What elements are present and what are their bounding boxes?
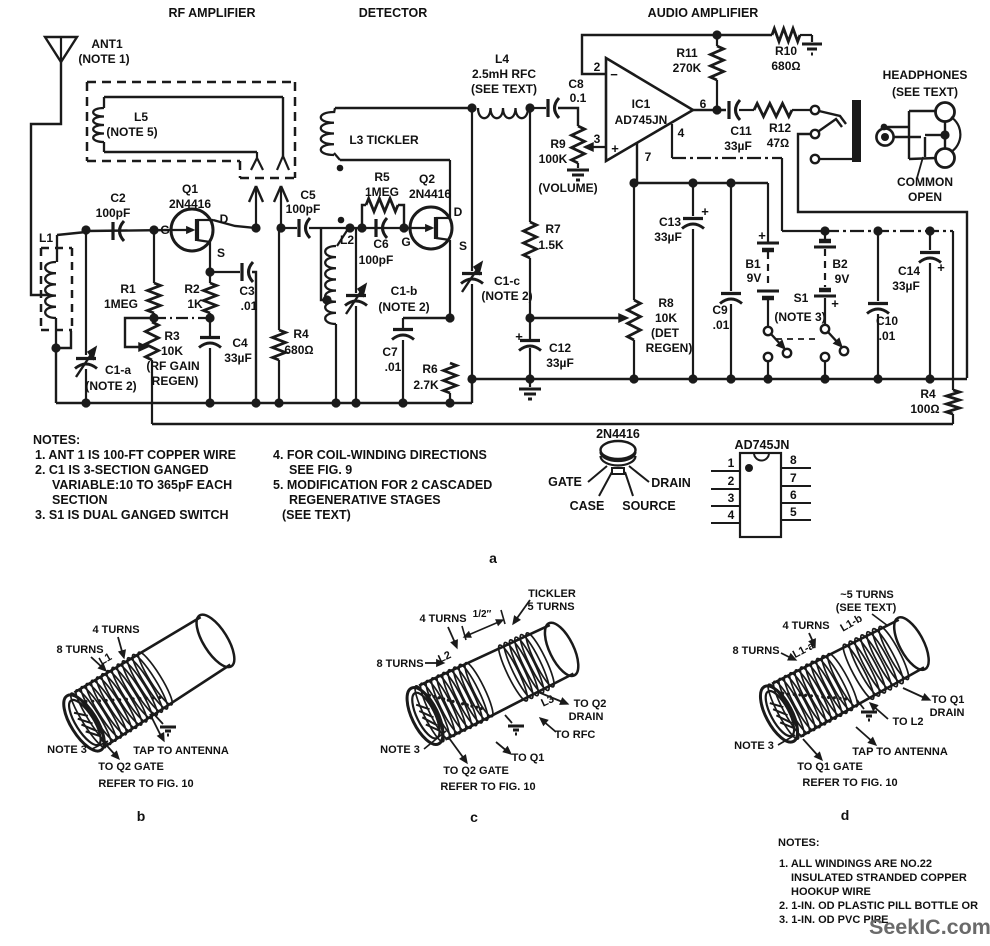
svg-text:TO Q2: TO Q2 bbox=[574, 698, 607, 710]
leader 4 TURNS d bbox=[809, 633, 815, 647]
node C1-b bottom bbox=[351, 398, 360, 407]
leader 5 TURNS d bbox=[872, 614, 888, 626]
svg-text:C7: C7 bbox=[382, 345, 398, 359]
label C6 100pF bbox=[359, 237, 394, 267]
node C1-c bottom bbox=[467, 374, 476, 383]
leader TAP b bbox=[150, 714, 164, 741]
svg-text:4 TURNS: 4 TURNS bbox=[92, 624, 139, 636]
label C4 33uF bbox=[224, 336, 252, 365]
inductor L1 bbox=[45, 235, 57, 344]
svg-text:~5 TURNS: ~5 TURNS bbox=[840, 589, 894, 601]
node C14 top bbox=[925, 226, 934, 235]
svg-text:REFER TO FIG. 10: REFER TO FIG. 10 bbox=[440, 781, 535, 793]
notes block bottom right bbox=[778, 837, 978, 926]
svg-text:C8: C8 bbox=[568, 77, 584, 91]
svg-text:C6: C6 bbox=[373, 237, 389, 251]
potentiometer R8 bbox=[628, 183, 641, 379]
leader TO Q2 DRAIN c bbox=[538, 692, 568, 704]
svg-text:(DET: (DET bbox=[651, 326, 680, 340]
battery B2 bbox=[814, 231, 839, 325]
svg-text:+: + bbox=[937, 260, 945, 275]
inductor L2 bbox=[325, 229, 348, 403]
svg-text:C3: C3 bbox=[239, 284, 255, 298]
svg-text:L2: L2 bbox=[340, 233, 354, 247]
svg-text:G: G bbox=[401, 235, 410, 249]
leader 4 TURNS b bbox=[118, 637, 125, 658]
svg-text:NOTE 3: NOTE 3 bbox=[734, 740, 774, 752]
wire L5 loop bottom with fork bbox=[104, 152, 263, 170]
leader TO Q1 DRAIN d bbox=[903, 688, 930, 700]
svg-text:INSULATED STRANDED COPPER: INSULATED STRANDED COPPER bbox=[791, 872, 967, 884]
svg-text:1K: 1K bbox=[187, 297, 203, 311]
svg-text:5. MODIFICATION FOR 2 CASCADED: 5. MODIFICATION FOR 2 CASCADED bbox=[273, 478, 492, 492]
svg-text:2N4416: 2N4416 bbox=[169, 197, 211, 211]
svg-text:C2: C2 bbox=[110, 191, 126, 205]
node R8 top bbox=[629, 178, 638, 187]
svg-text:1. ALL WINDINGS ARE NO.22: 1. ALL WINDINGS ARE NO.22 bbox=[779, 858, 932, 870]
headphone speaker bottom bbox=[936, 149, 955, 168]
svg-text:c: c bbox=[470, 809, 478, 825]
label L4 2.5mH RFC (SEE TEXT) bbox=[471, 52, 537, 96]
svg-text:33µF: 33µF bbox=[654, 230, 682, 244]
svg-text:(RF GAIN: (RF GAIN bbox=[146, 359, 199, 373]
capacitor C11 bbox=[729, 100, 754, 120]
node C9 bottom bbox=[726, 374, 735, 383]
svg-text:CASE: CASE bbox=[570, 499, 605, 513]
node Q2 gate bbox=[399, 223, 408, 232]
node R11 top bbox=[712, 30, 721, 39]
svg-text:7: 7 bbox=[645, 150, 652, 164]
svg-text:5: 5 bbox=[790, 505, 797, 519]
svg-text:ANT1: ANT1 bbox=[91, 37, 123, 51]
svg-text:AD745JN: AD745JN bbox=[735, 438, 790, 452]
svg-text:+: + bbox=[831, 296, 839, 311]
jack ring contact bbox=[811, 119, 842, 138]
leader 4 TURNS c bbox=[448, 627, 457, 648]
capacitor C9 bbox=[720, 183, 742, 379]
svg-text:NOTE 3: NOTE 3 bbox=[380, 744, 420, 756]
svg-text:+: + bbox=[515, 329, 523, 344]
svg-text:(NOTE 5): (NOTE 5) bbox=[106, 125, 157, 139]
svg-text:R3: R3 bbox=[164, 329, 180, 343]
inductor L4 RFC bbox=[478, 108, 528, 118]
resistor R4 100 bbox=[947, 390, 960, 424]
variable capacitor C1-b bbox=[345, 228, 367, 403]
node C1-a top bbox=[81, 225, 90, 234]
capacitor C14 bbox=[919, 231, 945, 379]
svg-text:−: − bbox=[610, 67, 618, 82]
svg-text:R6: R6 bbox=[422, 362, 438, 376]
label HEADPHONES (SEE TEXT) bbox=[883, 68, 968, 99]
svg-text:1. ANT 1 IS 100-FT COPPER WIR: 1. ANT 1 IS 100-FT COPPER WIRE bbox=[35, 448, 236, 462]
svg-text:6: 6 bbox=[790, 488, 797, 502]
svg-text:SeekIC.com: SeekIC.com bbox=[869, 915, 990, 939]
resistor R1 bbox=[148, 230, 161, 318]
svg-text:.01: .01 bbox=[713, 318, 730, 332]
svg-text:REGENERATIVE STAGES: REGENERATIVE STAGES bbox=[289, 493, 441, 507]
svg-text:DRAIN: DRAIN bbox=[930, 707, 965, 719]
capacitor C8 bbox=[530, 98, 578, 126]
svg-text:(NOTE 2): (NOTE 2) bbox=[85, 379, 136, 393]
wire R3 wiper bracket bbox=[125, 318, 154, 347]
label B2 9V bbox=[832, 257, 849, 286]
node L2 bottom bbox=[331, 398, 340, 407]
arrow R3 wiper bbox=[139, 343, 148, 351]
svg-text:2.5mH RFC: 2.5mH RFC bbox=[472, 67, 536, 81]
svg-text:(SEE TEXT): (SEE TEXT) bbox=[282, 508, 351, 522]
pin 6 bbox=[781, 488, 811, 503]
label TICKLER 5 TURNS c bbox=[527, 588, 575, 613]
svg-text:REFER TO FIG. 10: REFER TO FIG. 10 bbox=[98, 778, 193, 790]
svg-text:+: + bbox=[758, 228, 766, 243]
svg-text:4: 4 bbox=[678, 126, 685, 140]
label L5 (NOTE 5) bbox=[106, 110, 157, 139]
svg-text:R10: R10 bbox=[775, 44, 797, 58]
svg-text:C1-a: C1-a bbox=[105, 363, 131, 377]
arrow R8 wiper bbox=[619, 314, 628, 322]
pin 5 bbox=[781, 505, 811, 520]
node C4 bottom bbox=[205, 398, 214, 407]
node L4 right bbox=[525, 103, 534, 112]
label TO Q2 DRAIN c bbox=[569, 698, 607, 723]
svg-text:TO Q1 GATE: TO Q1 GATE bbox=[797, 761, 863, 773]
svg-text:8: 8 bbox=[790, 453, 797, 467]
wire pin6 output bbox=[693, 109, 726, 111]
svg-text:COMMON: COMMON bbox=[897, 175, 953, 189]
svg-text:C4: C4 bbox=[232, 336, 248, 350]
leader TO L2 d bbox=[870, 703, 888, 719]
capacitor C13 bbox=[682, 183, 709, 379]
label R10 680 bbox=[771, 44, 800, 73]
wire jack return bbox=[798, 134, 967, 378]
wire pin2 feedback bbox=[582, 35, 717, 74]
potentiometer R3 bbox=[146, 322, 159, 424]
package drawing 2N4416 bbox=[588, 427, 649, 496]
label C2 100pF bbox=[96, 191, 131, 220]
leader TICKLER c bbox=[513, 600, 530, 624]
wire pin4 dash-dot bbox=[672, 124, 953, 390]
arrow to L5 fork right bbox=[274, 186, 288, 228]
svg-text:680Ω: 680Ω bbox=[771, 59, 800, 73]
svg-text:8 TURNS: 8 TURNS bbox=[732, 645, 779, 657]
svg-text:GATE: GATE bbox=[548, 475, 582, 489]
leader NOTE3 c bbox=[424, 731, 446, 749]
svg-text:TICKLER: TICKLER bbox=[528, 588, 576, 600]
svg-text:33µF: 33µF bbox=[546, 356, 574, 370]
svg-text:S: S bbox=[459, 239, 467, 253]
svg-text:(NOTE 1): (NOTE 1) bbox=[78, 52, 129, 66]
svg-text:100pF: 100pF bbox=[286, 202, 321, 216]
wire to R10 bbox=[717, 34, 772, 36]
svg-text:C13: C13 bbox=[659, 215, 681, 229]
label R9 100K bbox=[539, 137, 568, 166]
svg-text:G: G bbox=[160, 223, 169, 237]
inductor L3 tickler bbox=[321, 108, 340, 160]
svg-text:D: D bbox=[220, 212, 229, 226]
wire main ground rail bbox=[472, 378, 967, 380]
svg-text:2. 1-IN. OD PLASTIC PILL BOTTL: 2. 1-IN. OD PLASTIC PILL BOTTLE OR bbox=[779, 900, 978, 912]
label C9 .01 bbox=[712, 303, 729, 332]
svg-text:REFER TO FIG. 10: REFER TO FIG. 10 bbox=[802, 777, 897, 789]
potentiometer R9 bbox=[572, 126, 585, 168]
wire to R8 wiper bbox=[530, 317, 622, 319]
leader TO Q1 GATE d bbox=[803, 739, 822, 760]
svg-text:NOTES:: NOTES: bbox=[778, 837, 820, 849]
svg-text:C1-c: C1-c bbox=[494, 274, 520, 288]
svg-text:SOURCE: SOURCE bbox=[622, 499, 675, 513]
svg-text:33µF: 33µF bbox=[724, 139, 752, 153]
node drain arrow2 bbox=[276, 223, 285, 232]
svg-text:2: 2 bbox=[594, 60, 601, 74]
svg-text:TO L2: TO L2 bbox=[893, 716, 924, 728]
node R1 top bbox=[149, 225, 158, 234]
label R6 2.7K bbox=[413, 362, 439, 392]
wire V+ rail bbox=[634, 182, 768, 184]
svg-text:2.7K: 2.7K bbox=[413, 378, 439, 392]
node C9 top bbox=[726, 178, 735, 187]
variable capacitor C1-a bbox=[75, 230, 97, 403]
ground R9 bbox=[567, 169, 589, 172]
svg-text:10K: 10K bbox=[655, 311, 677, 325]
package drawing AD745JN bbox=[735, 438, 790, 537]
svg-text:REGEN): REGEN) bbox=[646, 341, 693, 355]
svg-text:R12: R12 bbox=[769, 121, 791, 135]
node C10 bottom bbox=[873, 374, 882, 383]
svg-text:R9: R9 bbox=[550, 137, 566, 151]
svg-text:4 TURNS: 4 TURNS bbox=[419, 613, 466, 625]
svg-text:10K: 10K bbox=[161, 344, 183, 358]
svg-text:R5: R5 bbox=[374, 170, 390, 184]
svg-text:9V: 9V bbox=[835, 272, 850, 286]
svg-text:DRAIN: DRAIN bbox=[569, 711, 604, 723]
leader 8 TURNS d bbox=[781, 653, 796, 660]
svg-text:2: 2 bbox=[728, 474, 735, 488]
label C12 33uF bbox=[546, 341, 574, 370]
node L2 tap bbox=[322, 295, 331, 304]
svg-text:(SEE TEXT): (SEE TEXT) bbox=[892, 85, 958, 99]
label Q1 2N4416 bbox=[169, 182, 211, 211]
node C13 bottom bbox=[688, 374, 697, 383]
label C5 100pF bbox=[286, 188, 321, 216]
svg-text:L1: L1 bbox=[39, 231, 53, 245]
svg-text:R4: R4 bbox=[293, 327, 309, 341]
label ~5 TURNS d bbox=[836, 589, 897, 614]
svg-text:0.1: 0.1 bbox=[570, 91, 587, 105]
svg-text:IC1: IC1 bbox=[632, 97, 651, 111]
svg-text:TO Q1: TO Q1 bbox=[932, 694, 965, 706]
svg-text:33µF: 33µF bbox=[224, 351, 252, 365]
leader 8 TURNS c bbox=[425, 660, 444, 667]
inductor L5 bbox=[93, 97, 104, 152]
node C1-a bottom bbox=[81, 398, 90, 407]
label R8 10K (DET REGEN) bbox=[646, 296, 693, 355]
svg-text:AD745JN: AD745JN bbox=[615, 113, 668, 127]
capacitor C7 bbox=[392, 318, 414, 403]
svg-text:1/2″: 1/2″ bbox=[473, 609, 492, 620]
leader NOTE3 b bbox=[92, 741, 108, 749]
wire left bottom rail bbox=[56, 402, 472, 404]
label R3 10K (RF GAIN REGEN) bbox=[146, 329, 199, 388]
label COMMON OPEN bbox=[897, 175, 953, 204]
svg-text:33µF: 33µF bbox=[892, 279, 920, 293]
coil drawing figure c pill bottle L2 L3 bbox=[400, 616, 586, 749]
capacitor C3 bbox=[210, 262, 256, 403]
wire Q1 source node bbox=[205, 267, 214, 276]
svg-text:SECTION: SECTION bbox=[52, 493, 108, 507]
svg-text:R1: R1 bbox=[120, 282, 136, 296]
svg-text:S: S bbox=[217, 246, 225, 260]
label R5 1MEG bbox=[365, 170, 399, 199]
svg-text:TO Q1: TO Q1 bbox=[512, 752, 545, 764]
label B1 9V bbox=[745, 257, 761, 285]
resistor R7 bbox=[524, 108, 537, 318]
notes block left bbox=[33, 433, 236, 522]
svg-text:(NOTE 2): (NOTE 2) bbox=[481, 289, 532, 303]
svg-text:1MEG: 1MEG bbox=[365, 185, 399, 199]
node B2 top bbox=[820, 226, 829, 235]
resistor R12 bbox=[754, 104, 811, 117]
svg-text:R2: R2 bbox=[184, 282, 200, 296]
label C1-b (NOTE 2) bbox=[378, 284, 429, 314]
wire C2 gate run bbox=[57, 232, 86, 235]
svg-text:HEADPHONES: HEADPHONES bbox=[883, 68, 968, 82]
node L2 top bbox=[345, 223, 354, 232]
wire L3 bottom to Q2 drain bbox=[340, 159, 450, 161]
svg-text:VARIABLE:10 TO 365pF EACH: VARIABLE:10 TO 365pF EACH bbox=[52, 478, 232, 492]
resistor R5 bbox=[362, 199, 404, 229]
resistor R4 680 bbox=[273, 228, 286, 403]
svg-text:+: + bbox=[701, 204, 709, 219]
label R1 1MEG bbox=[104, 282, 138, 311]
op-amp IC1 triangle bbox=[606, 58, 693, 161]
svg-text:47Ω: 47Ω bbox=[767, 136, 790, 150]
node C7 top bbox=[445, 313, 454, 322]
pin 7 bbox=[781, 471, 811, 486]
node C10 top bbox=[873, 226, 882, 235]
svg-text:8 TURNS: 8 TURNS bbox=[56, 644, 103, 656]
battery B1 bbox=[757, 183, 779, 327]
svg-text:100pF: 100pF bbox=[96, 206, 131, 220]
svg-text:.01: .01 bbox=[241, 299, 258, 313]
wire antenna down-lead bbox=[31, 62, 61, 295]
node R6 bottom bbox=[445, 398, 454, 407]
wire headphone link bbox=[944, 121, 946, 149]
svg-text:C5: C5 bbox=[300, 188, 316, 202]
wire L1 bottom jog bbox=[56, 331, 71, 348]
jack tip contact bbox=[811, 106, 846, 124]
label R7 1.5K bbox=[538, 222, 564, 252]
headphone wiring bbox=[887, 111, 941, 178]
wire L5 loop top bbox=[104, 96, 283, 98]
notes block middle bbox=[273, 448, 492, 522]
svg-text:HOOKUP WIRE: HOOKUP WIRE bbox=[791, 886, 871, 898]
svg-text:+: + bbox=[611, 141, 619, 156]
resistor R6 bbox=[444, 363, 457, 403]
svg-text:AUDIO AMPLIFIER: AUDIO AMPLIFIER bbox=[648, 6, 759, 20]
svg-text:(SEE TEXT): (SEE TEXT) bbox=[836, 602, 897, 614]
svg-text:(NOTE 2): (NOTE 2) bbox=[378, 300, 429, 314]
capacitor C5 bbox=[281, 218, 410, 238]
svg-text:NOTES:: NOTES: bbox=[33, 433, 80, 447]
svg-text:TO Q2 GATE: TO Q2 GATE bbox=[443, 765, 509, 777]
label R12 47 bbox=[767, 121, 792, 150]
label C8 0.1 bbox=[568, 77, 586, 105]
svg-text:S1: S1 bbox=[794, 291, 809, 305]
svg-text:R4: R4 bbox=[920, 387, 936, 401]
antenna ANT1 bbox=[45, 37, 77, 62]
wire L1 bottom to rail bbox=[55, 348, 57, 403]
ground figure d bbox=[857, 700, 877, 720]
label C1-a (NOTE 2) bbox=[85, 363, 136, 393]
pin 4 bbox=[711, 508, 740, 523]
capacitor C4 bbox=[199, 318, 221, 403]
node R7 bottom bbox=[525, 313, 534, 322]
svg-text:R8: R8 bbox=[658, 296, 674, 310]
wire lower return rail bbox=[152, 423, 953, 425]
svg-text:2N4416: 2N4416 bbox=[596, 427, 640, 441]
node R1 bottom junction bbox=[149, 313, 158, 322]
svg-text:C1-b: C1-b bbox=[391, 284, 418, 298]
wire L5 loop right with fork bbox=[277, 97, 289, 170]
svg-text:C9: C9 bbox=[712, 303, 728, 317]
headphone speaker top bbox=[936, 103, 955, 122]
svg-text:100K: 100K bbox=[539, 152, 568, 166]
svg-text:4: 4 bbox=[728, 508, 735, 522]
svg-text:TAP TO ANTENNA: TAP TO ANTENNA bbox=[852, 746, 948, 758]
svg-text:C12: C12 bbox=[549, 341, 571, 355]
label C1-c (NOTE 2) bbox=[481, 274, 532, 303]
node drain arrow1 bbox=[251, 223, 260, 232]
svg-text:a: a bbox=[489, 550, 497, 566]
svg-text:REGEN): REGEN) bbox=[152, 374, 199, 388]
svg-text:TO RFC: TO RFC bbox=[555, 729, 596, 741]
resistor R2 bbox=[204, 272, 217, 318]
svg-text:5 TURNS: 5 TURNS bbox=[527, 601, 574, 613]
svg-text:D: D bbox=[454, 205, 463, 219]
leader TAP d bbox=[856, 727, 876, 745]
svg-text:1.5K: 1.5K bbox=[538, 238, 564, 252]
node R5 left bbox=[357, 223, 366, 232]
dashed box for L5 option bbox=[87, 82, 295, 178]
svg-text:4. FOR COIL-WINDING DIRECTIONS: 4. FOR COIL-WINDING DIRECTIONS bbox=[273, 448, 487, 462]
label Q2 2N4416 bbox=[409, 172, 451, 201]
svg-text:(NOTE 3): (NOTE 3) bbox=[774, 310, 825, 324]
svg-text:NOTE 3: NOTE 3 bbox=[47, 744, 87, 756]
wire C5 to L2 tap bbox=[321, 228, 327, 300]
node C13 top bbox=[688, 178, 697, 187]
svg-text:2. C1 IS 3-SECTION GANGED: 2. C1 IS 3-SECTION GANGED bbox=[35, 463, 209, 477]
node R4 bottom bbox=[274, 398, 283, 407]
polarity dot L2 bbox=[338, 217, 345, 224]
polarity dot L3 bbox=[337, 165, 344, 172]
svg-text:1MEG: 1MEG bbox=[104, 297, 138, 311]
leader NOTE3 d bbox=[778, 735, 795, 745]
jack body bar bbox=[852, 100, 861, 162]
wire rail riser bbox=[471, 379, 473, 403]
node S1a bottom bbox=[763, 374, 772, 383]
label C14 33uF bbox=[892, 264, 920, 293]
svg-text:3: 3 bbox=[594, 132, 601, 146]
svg-text:(VOLUME): (VOLUME) bbox=[538, 181, 597, 195]
svg-text:7: 7 bbox=[790, 471, 797, 485]
coil drawing figure d pill bottle L1a L1b bbox=[753, 611, 937, 748]
label R2 1K bbox=[184, 282, 203, 311]
svg-text:R7: R7 bbox=[545, 222, 561, 236]
leader 8 TURNS b bbox=[91, 657, 106, 671]
node rail C12 bbox=[525, 374, 534, 383]
capacitor C10 bbox=[867, 231, 889, 379]
node C7 bottom bbox=[398, 398, 407, 407]
